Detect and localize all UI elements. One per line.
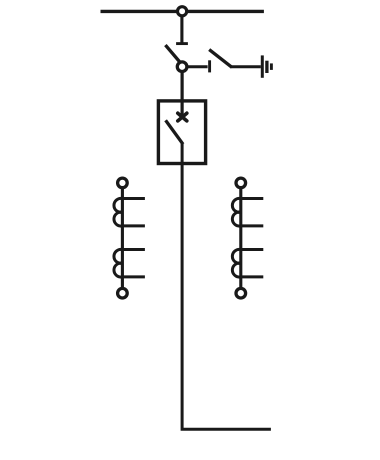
wire: node N2 down into breaker cubicle to fixed contact bbox=[181, 70, 184, 117]
T2 secondary tap 2 bbox=[241, 224, 263, 227]
earthing switch fixed contact bar bbox=[208, 60, 211, 72]
T1 winding hump 3 bbox=[114, 249, 122, 263]
disconnector fixed contact bar bbox=[176, 42, 188, 45]
T1 secondary tap 3 bbox=[122, 248, 144, 251]
disconnector blade (open) bbox=[165, 45, 181, 64]
busbar (top horizontal bus) bbox=[101, 10, 264, 13]
earthing switch blade (open) bbox=[209, 50, 232, 68]
T1 secondary tap 4 bbox=[122, 275, 144, 278]
T1 winding hump 2 bbox=[114, 212, 122, 226]
T1 secondary tap 1 bbox=[122, 197, 144, 200]
ground (earth symbol, long bar) bbox=[261, 55, 264, 77]
T2 bottom terminal node bbox=[236, 288, 246, 298]
wire: busbar node to disconnector fixed contact bbox=[180, 14, 183, 43]
node (busbar tap point) bbox=[178, 7, 187, 16]
T2 secondary tap 4 bbox=[241, 275, 263, 278]
T1 top terminal node bbox=[118, 178, 128, 188]
T1 winding hump 4 bbox=[114, 263, 122, 277]
wire: feeder drop from breaker to cable end (with bottom horizontal run) bbox=[182, 143, 271, 430]
circuit breaker U1 withdrawable cubicle (enclosure box) bbox=[158, 101, 205, 164]
breaker blade (open) bbox=[166, 120, 183, 144]
T2 winding hump 2 bbox=[232, 212, 240, 226]
T2 winding hump 3 bbox=[232, 249, 240, 263]
T2 top terminal node bbox=[236, 178, 246, 188]
T1 winding hump 1 bbox=[114, 198, 122, 212]
T1 bottom terminal node bbox=[118, 288, 128, 298]
ground (earth symbol, middle bar) bbox=[265, 61, 268, 73]
node N2 (disconnector hinge junction) bbox=[177, 62, 187, 72]
wire: earthing switch hinge to earth electrode bbox=[231, 65, 261, 68]
T2 winding hump 1 bbox=[232, 198, 240, 212]
ground (earth symbol, short bar) bbox=[270, 63, 273, 70]
T1 secondary tap 2 bbox=[122, 224, 144, 227]
T2 winding hump 4 bbox=[232, 263, 240, 277]
T2 secondary tap 3 bbox=[241, 248, 263, 251]
breaker fixed contact (X mark) bbox=[178, 113, 187, 121]
T2 secondary tap 1 bbox=[241, 197, 263, 200]
current transformer T1 primary conductor (left vertical) bbox=[121, 186, 124, 291]
wire: node N2 to earthing-switch fixed contact bbox=[186, 65, 208, 68]
current transformer T2 primary conductor (right vertical) bbox=[239, 186, 242, 291]
